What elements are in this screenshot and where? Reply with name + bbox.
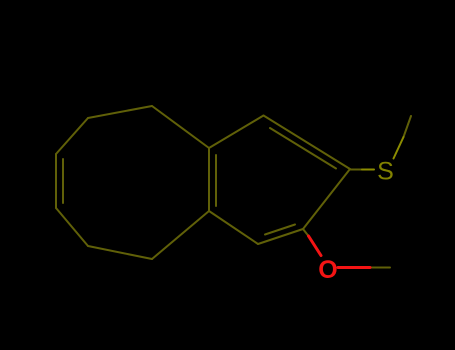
svg-text:O: O — [318, 256, 337, 284]
svg-text:S: S — [377, 158, 394, 186]
